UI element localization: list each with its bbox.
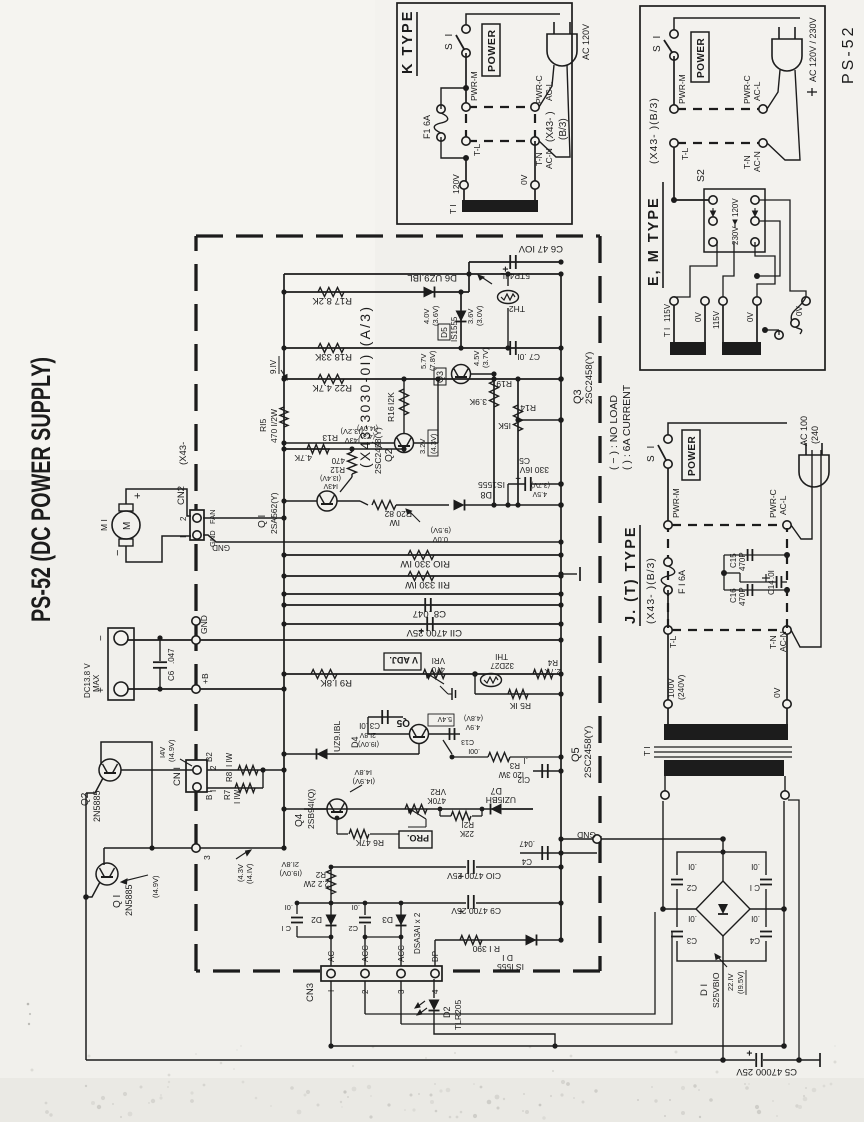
svg-text:(I4.IV): (I4.IV): [245, 863, 254, 884]
svg-text:TH2: TH2: [509, 304, 525, 314]
svg-text:K TYPE: K TYPE: [400, 10, 416, 74]
motor wire minus side: [126, 536, 191, 562]
row C9: [297, 902, 561, 904]
svg-text:4.5V: 4.5V: [532, 490, 547, 497]
svg-text:.00I: .00I: [468, 747, 480, 754]
svg-text:470 I/2W: 470 I/2W: [269, 409, 279, 443]
svg-text:(B/3): (B/3): [558, 118, 569, 140]
svg-text:FAN: FAN: [208, 509, 217, 524]
svg-text:C5: C5: [519, 456, 530, 466]
svg-text:R I 390: R I 390: [472, 944, 500, 954]
resistor R8 1 1W: [238, 766, 258, 775]
svg-text:0V: 0V: [519, 174, 529, 185]
caps C15 C16 network (J): [724, 554, 787, 556]
svg-text:(I9.0V): (I9.0V): [279, 869, 302, 878]
svg-text:C2: C2: [686, 883, 697, 892]
svg-text:POWER: POWER: [486, 29, 498, 72]
row B2: [200, 769, 284, 771]
svg-text:E, M TYPE: E, M TYPE: [646, 196, 662, 286]
svg-text:Q2: Q2: [384, 448, 395, 462]
svg-text:(X43- ): (X43- ): [545, 111, 556, 142]
wire bridge right vertex: [750, 908, 784, 910]
svg-text:R3: R3: [509, 761, 520, 770]
diode D1 IS1555: [526, 935, 537, 946]
svg-text:PRO.: PRO.: [407, 833, 429, 843]
row C11: [284, 623, 561, 625]
E,M TYPE box outline: [640, 6, 825, 370]
connector pins (EM): [670, 105, 678, 113]
svg-text:120V: 120V: [731, 198, 740, 217]
vertical x274: [104, 847, 284, 849]
svg-text:POWER: POWER: [687, 435, 698, 476]
svg-text:I4.8V: I4.8V: [354, 768, 372, 777]
svg-text:T-L: T-L: [680, 147, 690, 160]
B+ rail: [124, 688, 284, 690]
squiggle wire (EM): [791, 297, 806, 334]
fuse F1 (K): [437, 133, 445, 141]
svg-text:0V: 0V: [772, 687, 782, 698]
wire S1 to top rail (K): [466, 14, 560, 25]
capacitor C6 47 10V: [509, 255, 511, 269]
wires to plug (J): [791, 450, 812, 539]
wire Q3 collector: [442, 378, 452, 380]
resistor R2 2.2 2W: [327, 870, 336, 894]
resistor R3 120 3W: [452, 756, 488, 758]
svg-text:(7.8V): (7.8V): [428, 350, 437, 371]
terminal 0V (K): [531, 181, 539, 189]
wire Q2 emitter: [86, 778, 103, 793]
svg-text:S25VBIO: S25VBIO: [711, 972, 721, 1008]
svg-text:C9 4700 25V: C9 4700 25V: [451, 906, 501, 916]
svg-text:(240V): (240V): [676, 674, 686, 700]
svg-text:470: 470: [331, 456, 345, 465]
svg-text:4: 4: [431, 989, 440, 994]
K TYPE box outline: [397, 3, 572, 224]
row C8: [284, 604, 561, 606]
wire bridge bottom vertex: [722, 936, 724, 1060]
svg-text:AC-L: AC-L: [778, 495, 788, 515]
wire D7 down: [502, 808, 533, 810]
wire R14 row: [517, 379, 519, 505]
svg-text:R14: R14: [520, 403, 536, 413]
svg-text:(I4.9V): (I4.9V): [167, 739, 176, 762]
resistor R6 47K row: [337, 833, 348, 835]
row R17 wire: [284, 291, 469, 293]
svg-text:J. (T) TYPE: J. (T) TYPE: [623, 525, 639, 624]
svg-text:3.2V: 3.2V: [418, 439, 427, 454]
row D4: [284, 753, 388, 755]
svg-text:115V: 115V: [712, 310, 721, 329]
capacitor C2 .01: [360, 915, 371, 925]
svg-text:5.4V: 5.4V: [437, 715, 452, 722]
svg-text:PS-52: PS-52: [840, 25, 857, 84]
svg-text:C14: C14: [767, 580, 776, 595]
svg-text:3.9K: 3.9K: [469, 397, 487, 407]
svg-text:VRI: VRI: [432, 656, 445, 665]
transistor Q2 2N5885: [99, 759, 121, 781]
svg-text:+: +: [745, 1050, 756, 1056]
row R11: [284, 575, 561, 577]
svg-text:( ) : 6A CURRENT: ( ) : 6A CURRENT: [621, 384, 633, 470]
diode D2 DSA3A1: [326, 915, 337, 926]
transistor Q5: [410, 725, 429, 744]
diode D4 zener UZ9.1BL: [317, 749, 328, 760]
svg-text:32D27: 32D27: [490, 661, 514, 670]
svg-text:D2: D2: [311, 915, 322, 925]
svg-text:R2I: R2I: [462, 820, 474, 829]
terminal 3 border: [192, 844, 200, 852]
svg-text:2SA562(Y): 2SA562(Y): [269, 492, 279, 534]
svg-text:V ADJ.: V ADJ.: [389, 655, 418, 665]
svg-text:R5 IK: R5 IK: [509, 701, 531, 711]
svg-text:2SC2458(Y): 2SC2458(Y): [584, 352, 595, 404]
svg-text:3: 3: [202, 855, 212, 860]
svg-text:R13: R13: [322, 433, 338, 443]
CN3 pins: [327, 969, 335, 977]
cap VR1 wiper: [440, 686, 448, 694]
wire Q1s emitter to R20: [337, 500, 360, 502]
connector CN2 box: [190, 510, 204, 540]
connector pins (J): [664, 521, 672, 529]
svg-text:.047: .047: [167, 648, 176, 664]
svg-text:RII 330 IW: RII 330 IW: [405, 579, 450, 590]
svg-text:THI: THI: [495, 652, 508, 661]
svg-text:2SC2458(Y): 2SC2458(Y): [583, 726, 594, 778]
svg-text:GND: GND: [577, 830, 596, 840]
svg-text:I5K: I5K: [498, 421, 511, 431]
capacitor C10 4700 25V: [466, 859, 476, 875]
svg-text:M I: M I: [99, 519, 109, 531]
chassis gnd stub C8: [561, 573, 577, 575]
svg-text:Q I: Q I: [112, 895, 123, 908]
svg-text:C6 47 IOV: C6 47 IOV: [518, 243, 563, 254]
svg-text:PWR-C: PWR-C: [534, 75, 544, 104]
transistor Q1 2N5885: [96, 863, 118, 885]
T1 terminals (EM): [670, 297, 678, 305]
arrow TH2: [480, 276, 492, 284]
label 5.4V 5.3V: [428, 714, 454, 726]
diode D5 IS1555: [456, 311, 467, 322]
resistor R19 3.9K: [490, 381, 499, 407]
svg-text:I IW: I IW: [233, 789, 242, 804]
svg-text:470P: 470P: [738, 587, 747, 606]
svg-text:+: +: [513, 476, 523, 481]
bridge box: [677, 852, 766, 961]
variable resistor VR1 470: [423, 670, 445, 679]
wire CN2 FAN to bus: [203, 517, 284, 519]
wire GND down to bridge: [601, 838, 723, 840]
svg-text:T I: T I: [663, 328, 672, 337]
resistor R7 1 1W: [235, 784, 255, 793]
svg-text:R16: R16: [386, 406, 396, 422]
svg-text:−: −: [112, 550, 124, 556]
svg-text:CN3: CN3: [305, 983, 316, 1002]
wire pin3 to T1: [401, 932, 672, 1024]
S2 arrows (EM): [712, 208, 714, 216]
row R18 wire: [284, 347, 561, 349]
thermistor TH2 5TP41L: [498, 291, 519, 304]
row R22 wire: [284, 378, 561, 380]
svg-text:(I9.5V): (I9.5V): [736, 971, 745, 994]
svg-text:R6 47K: R6 47K: [355, 838, 384, 848]
svg-text:S2: S2: [695, 169, 707, 182]
svg-text:.0I: .0I: [688, 914, 697, 923]
wire D4 to Q5 base: [388, 753, 419, 755]
svg-text:D I: D I: [699, 984, 710, 996]
svg-text:C I: C I: [750, 883, 760, 892]
svg-text:C4: C4: [521, 857, 532, 866]
svg-text:470K: 470K: [427, 796, 446, 805]
transistor Q4 2SB941(Q): [327, 799, 347, 819]
wires to plug (EM): [767, 70, 780, 109]
svg-text:4.7K: 4.7K: [294, 453, 312, 463]
svg-text:115V: 115V: [663, 303, 672, 322]
svg-text:(9.5V): (9.5V): [430, 526, 451, 535]
svg-text:T I: T I: [448, 204, 458, 214]
frame tick (EM): [811, 88, 813, 96]
capacitor C11 4700 25V: [426, 617, 428, 631]
svg-text:−: −: [96, 635, 107, 641]
wire PRO to VR2: [414, 827, 416, 831]
connector CN1 box: [186, 760, 207, 792]
resistor R20 82 1W: [372, 501, 396, 510]
wire fuse to T-L (J): [667, 590, 669, 626]
svg-text:M: M: [122, 522, 133, 530]
svg-text:2: 2: [209, 765, 218, 770]
svg-text:Q4: Q4: [294, 813, 305, 827]
wire Q1 base: [103, 848, 105, 865]
diode D8 IS1555: [454, 500, 465, 511]
svg-text:22.IV: 22.IV: [726, 973, 735, 991]
transformer T1 primary bar (J): [664, 724, 788, 740]
CN1 pins: [193, 766, 201, 774]
diode D3 DSA3A1: [396, 915, 407, 926]
wires terminals to bar (K): [463, 189, 465, 200]
label D5: [438, 324, 450, 340]
wires T1 terminals to bars (EM): [673, 305, 675, 342]
diode D7 zener UZ15BH: [491, 804, 502, 815]
wire bridge left vertex: [663, 908, 696, 910]
svg-text:C15: C15: [729, 553, 738, 568]
terminal small upper: [192, 617, 200, 625]
row plain x528: [284, 593, 561, 595]
row pin2 with C2: [364, 981, 366, 1014]
wire R13 to Q2 base: [330, 448, 404, 450]
secondary terminals (J): [661, 791, 669, 799]
wire C4-GNDterm: [561, 852, 590, 854]
row R9 wire: [284, 673, 561, 675]
wire Q3 to R19 row: [470, 373, 494, 375]
row pin1 AC: [330, 981, 332, 1046]
svg-text:VR2: VR2: [430, 787, 446, 796]
wire R5 row: [474, 674, 476, 694]
variable resistor VR2 470K: [405, 805, 427, 814]
switch S2 box (EM): [704, 189, 765, 252]
svg-text:(3.6V): (3.6V): [431, 305, 440, 326]
svg-text:AC 100: AC 100: [799, 416, 809, 446]
svg-text:S I: S I: [652, 34, 663, 52]
svg-text:.047: .047: [519, 839, 535, 848]
wire Q5 to R3: [455, 733, 460, 735]
svg-text:AC-L: AC-L: [752, 81, 762, 101]
wire bridge top vertex: [722, 839, 724, 881]
DC terminal block box: [108, 628, 134, 700]
svg-text:(4.3V: (4.3V: [236, 864, 245, 882]
junction PWR-M (K): [463, 85, 469, 91]
svg-text:R7: R7: [223, 789, 232, 800]
wires terminals to primary bar (J): [667, 708, 669, 724]
wire Q2 collector to R22row: [374, 442, 395, 444]
resistor R11 330 1W: [408, 572, 434, 581]
svg-text:C I: C I: [281, 924, 291, 933]
rail A outer: [86, 1059, 820, 1061]
thermistor TH1 32D27: [481, 674, 502, 687]
bridge diode symbol: [718, 904, 728, 914]
svg-text:D I: D I: [502, 953, 513, 963]
svg-text:AC 120V: AC 120V: [581, 24, 591, 60]
plug (K): [547, 34, 577, 66]
svg-text:(I4.9V): (I4.9V): [151, 875, 160, 898]
svg-text:C13: C13: [461, 738, 474, 745]
svg-text:S I: S I: [646, 444, 657, 462]
capacitor C6b .047: [159, 668, 161, 689]
resistor R22 4.7K: [318, 375, 344, 384]
resistor R10 330 1W: [408, 551, 434, 560]
svg-text:RI5: RI5: [258, 419, 268, 433]
rail A end tick: [819, 1053, 821, 1067]
svg-text:D8: D8: [480, 490, 492, 500]
svg-text:C3: C3: [686, 936, 697, 945]
row Q4 rail: [304, 808, 533, 810]
svg-text:C4: C4: [749, 936, 760, 945]
svg-text:C6: C6: [167, 670, 176, 681]
svg-text:MAX: MAX: [92, 674, 101, 692]
svg-text:.0I: .0I: [751, 862, 760, 871]
fuse F1 (J): [664, 586, 672, 594]
svg-text:Q I: Q I: [257, 515, 268, 528]
wire TH2 stub: [507, 274, 509, 292]
left rail Y86: [85, 793, 87, 1060]
GND border terminal: [192, 636, 200, 644]
svg-text:C2: C2: [348, 924, 358, 933]
tie C2 D3: [365, 936, 401, 938]
capacitor C3 bridge: [672, 927, 682, 941]
svg-text:F1 6A: F1 6A: [422, 115, 432, 139]
POWER box (J): [682, 430, 700, 480]
svg-text:0V: 0V: [795, 306, 804, 316]
svg-text:RIO 330 IW: RIO 330 IW: [400, 558, 450, 569]
resistor R12 470 (horizontal): [340, 477, 352, 492]
capacitor C1 loop: [297, 936, 331, 938]
svg-text:GND: GND: [212, 543, 230, 552]
plug cord wires (K): [539, 65, 554, 107]
capacitor C13 .001: [429, 733, 460, 735]
wire Y784 rail: [783, 909, 785, 1046]
svg-text:AC 120V / 230V: AC 120V / 230V: [808, 17, 818, 82]
wire CN2 GND to rail: [203, 535, 561, 542]
connector dashed (X43-)(B/3) (K): [468, 106, 532, 108]
svg-text:(X43- )(B/3): (X43- )(B/3): [645, 557, 657, 624]
svg-text:.0I: .0I: [359, 721, 368, 730]
svg-text:I4V: I4V: [158, 747, 167, 758]
svg-text:2N5885: 2N5885: [124, 884, 134, 916]
svg-text:PS-52 (DC POWER SUPPLY): PS-52 (DC POWER SUPPLY): [26, 357, 56, 622]
capacitor C4 .047: [533, 852, 561, 854]
svg-text:R22 4.7K: R22 4.7K: [312, 382, 352, 393]
svg-text:0V: 0V: [746, 312, 755, 322]
wire R3 down: [510, 756, 561, 758]
fuse loop wires (K): [441, 88, 466, 109]
wire B1 join B2: [262, 770, 264, 788]
svg-text:R17 8.2K: R17 8.2K: [312, 295, 352, 306]
row R10: [284, 554, 561, 556]
svg-text:5TP4 IL: 5TP4 IL: [500, 271, 530, 281]
switch S1 (J): [664, 460, 672, 468]
svg-text:(3.7V): (3.7V): [531, 481, 550, 488]
wire C3: [368, 716, 403, 718]
row wire x848: [284, 273, 561, 275]
DC terminal circles: [114, 631, 128, 645]
transformer T1 core lines (J): [654, 746, 792, 748]
row pin4 DP: [434, 940, 436, 966]
resistor R1 390: [460, 936, 482, 945]
plug (EM): [772, 39, 802, 71]
svg-text:.0I: .0I: [688, 862, 697, 871]
connector pins (K): [462, 103, 470, 111]
capacitor C4 bridge: [761, 927, 771, 941]
resistor R5 1K: [508, 690, 528, 699]
svg-text:4.5V: 4.5V: [472, 351, 481, 366]
wire Q5 branch: [284, 716, 368, 718]
svg-text:.0I: .0I: [751, 914, 760, 923]
svg-text:C3: C3: [369, 721, 380, 730]
svg-text:(4.3V): (4.3V): [429, 433, 438, 454]
wire LED down: [434, 1011, 555, 1046]
wire D5 branch: [460, 292, 462, 348]
row R13 wire: [284, 448, 330, 450]
svg-text:2.7K: 2.7K: [544, 667, 561, 676]
capacitor C8 .047: [424, 598, 426, 612]
svg-text:(I4.0V): (I4.0V): [357, 424, 378, 431]
wire R20 to D8: [396, 504, 449, 506]
svg-text:UZI5BH: UZI5BH: [486, 795, 516, 805]
transistor Q2 2SC2458: [395, 434, 414, 453]
resistor R21 22K (branch): [440, 815, 450, 817]
svg-text:( − ) : NO LOAD: ( − ) : NO LOAD: [608, 395, 620, 470]
transistor Q3: [452, 365, 471, 384]
svg-text:DC13.8 V: DC13.8 V: [83, 663, 92, 698]
svg-text:(4.8V): (4.8V): [464, 714, 483, 721]
svg-text:(240: (240: [810, 426, 820, 444]
svg-text:PWR-C: PWR-C: [768, 489, 778, 518]
GND terminal bottom border: [593, 835, 601, 843]
svg-text:D3: D3: [382, 915, 393, 925]
svg-text:R18 33K: R18 33K: [314, 351, 352, 362]
svg-text:T-L: T-L: [668, 635, 678, 648]
svg-text:D7: D7: [490, 786, 502, 796]
resistor R13 4.7K: [307, 445, 329, 454]
svg-text:R19: R19: [496, 379, 512, 389]
wire T-N to T1 (J): [786, 634, 788, 704]
svg-text:(I4.9V): (I4.9V): [352, 777, 375, 786]
svg-text:T-N: T-N: [768, 635, 778, 649]
wire R19 row: [493, 379, 495, 505]
wire S1 to connector (J): [667, 468, 669, 522]
wire Q1s collector: [284, 500, 317, 502]
svg-text:(3.0V): (3.0V): [475, 305, 484, 326]
resistor R9 1.8K: [311, 670, 337, 679]
capacitor C9 4700 25V: [466, 894, 476, 910]
